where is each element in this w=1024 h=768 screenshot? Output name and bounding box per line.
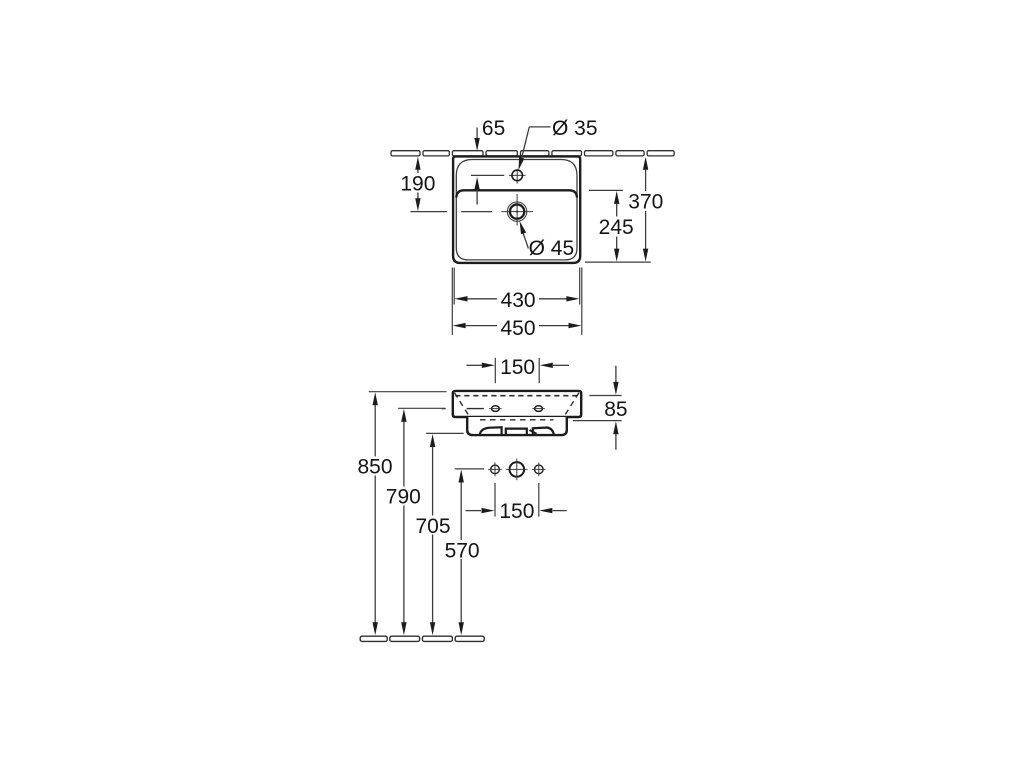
centre large hole crosshair <box>506 459 528 481</box>
drain centerline extension inside basin <box>461 211 492 213</box>
hidden right slant dashed (front view) <box>565 393 579 416</box>
dimension 65 arrow below tap centerline <box>474 177 479 205</box>
extension line 790 (fixing holes level) <box>398 407 445 409</box>
dimension 85 bottom extension line <box>573 420 622 422</box>
extension line 570 (wall holes level) <box>455 468 484 470</box>
drain center dot <box>516 211 518 213</box>
right fixing hole tick <box>532 408 544 410</box>
drain hole outer circle (top view) <box>507 202 526 221</box>
dimension 85 arrows <box>613 366 618 450</box>
dimension 705 line with arrows <box>430 434 435 635</box>
centerline segment left of left fixing hole <box>467 408 484 410</box>
extension lines for 450 <box>452 268 582 335</box>
centre large hole <box>510 462 525 477</box>
siphon cover body (front view) <box>467 417 567 435</box>
svg-text:65: 65 <box>482 117 505 140</box>
lower 150 extension lines below holes <box>495 483 539 517</box>
dimension 450 line <box>453 323 582 328</box>
drain cover right arch (front view) <box>533 428 554 435</box>
left small hole crosshair <box>488 463 502 477</box>
basin body rectangle (front view) <box>453 391 581 417</box>
right fixing hole ellipse <box>535 406 543 412</box>
extension line 705 (siphon bottom level) <box>426 432 464 434</box>
svg-text:Ø 35: Ø 35 <box>552 117 598 140</box>
left fixing hole ellipse <box>492 406 500 412</box>
extension line bottom right of basin <box>585 261 651 263</box>
svg-text:150: 150 <box>499 500 534 523</box>
svg-text:705: 705 <box>415 515 450 538</box>
hidden left slant dashed (front view) <box>455 393 470 416</box>
tap hole circle (top view) <box>511 169 523 181</box>
centerline dash outside left of body <box>442 408 446 410</box>
extension lines for 430 <box>454 268 580 305</box>
svg-text:790: 790 <box>386 486 421 509</box>
svg-text:85: 85 <box>604 398 627 421</box>
svg-text:450: 450 <box>500 317 535 340</box>
left fixing hole tick <box>489 408 501 410</box>
floor hatch band <box>360 636 484 641</box>
dimension 370 line <box>643 157 648 262</box>
dimension 65 arrow above wall <box>474 128 479 152</box>
svg-text:190: 190 <box>400 173 435 196</box>
leader line for diameter 35 <box>519 127 551 170</box>
svg-text:Ø 45: Ø 45 <box>529 237 575 260</box>
tap hole crosshair <box>509 169 526 184</box>
extension line for 245 top <box>589 189 623 191</box>
svg-text:570: 570 <box>445 539 480 562</box>
drain hole inner circle (top view) <box>510 204 524 218</box>
dimension 245 line <box>614 191 619 262</box>
drain cover centre tab (front view) <box>506 429 527 435</box>
basin inner rim (top view) <box>456 160 577 260</box>
lower dimension 150 arrows <box>466 508 567 513</box>
svg-text:370: 370 <box>628 191 663 214</box>
tap hole centerline extension <box>471 174 504 176</box>
extension line 850 (rim top level) <box>369 391 447 393</box>
dimension 430 line <box>455 296 580 301</box>
drain centerline extension left of basin <box>410 211 447 213</box>
svg-text:150: 150 <box>500 356 535 379</box>
dimension 570 line with arrows <box>459 470 464 636</box>
dimension 790 line with arrows <box>401 409 406 635</box>
drain cover left arch (front view) <box>480 427 502 435</box>
right small hole <box>535 465 544 474</box>
upper 150 extension ticks <box>495 358 539 383</box>
hidden dashed line in siphon area <box>480 419 554 421</box>
leader line for diameter 45 <box>520 221 529 249</box>
svg-text:850: 850 <box>357 456 392 479</box>
upper dimension 150 arrows <box>466 363 569 368</box>
drain cover flap line (front view) <box>530 430 537 434</box>
dimension 85 top extension line <box>589 395 621 397</box>
hidden top edge dashed (front view) <box>455 395 577 397</box>
right small hole crosshair <box>532 463 546 477</box>
svg-text:430: 430 <box>501 289 536 312</box>
dimension 190 line <box>415 157 420 211</box>
wall hatch band (top view) <box>391 151 674 156</box>
drain crosshair <box>501 194 533 226</box>
tap hole ring <box>512 170 523 181</box>
dimension 850 line with arrows <box>373 392 378 635</box>
basin outer rim (top view) <box>453 156 580 263</box>
svg-text:245: 245 <box>599 216 634 239</box>
basin bowl front edge line (top view) <box>456 190 577 197</box>
fixing holes row: left small hole <box>491 465 500 474</box>
